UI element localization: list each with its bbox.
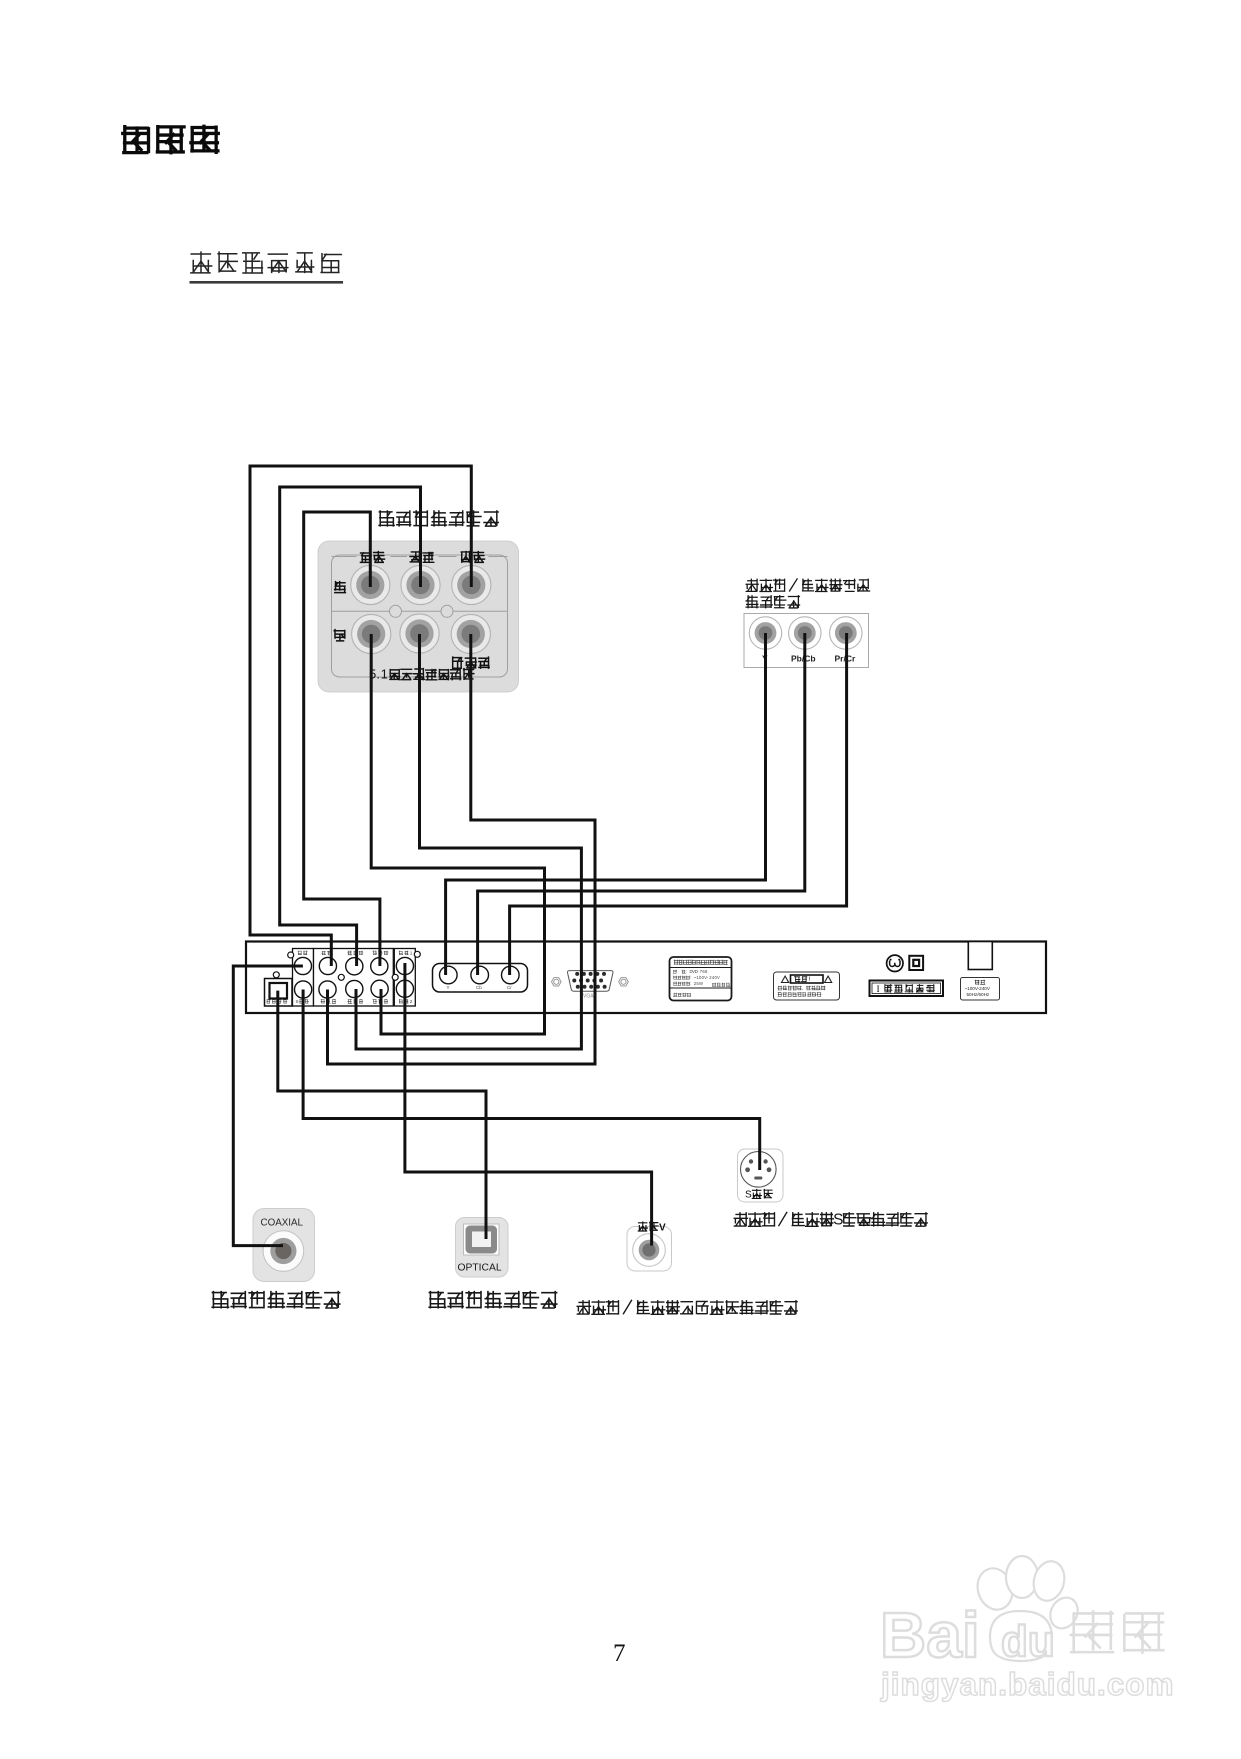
label row lines [332, 556, 508, 558]
wire subwoofer [328, 634, 596, 1064]
wire component Pr [510, 633, 847, 975]
screw holes [288, 952, 294, 958]
label 右 [334, 630, 345, 641]
wire composite video [405, 963, 652, 1246]
VGA connector [567, 971, 613, 992]
svg-text:Y: Y [447, 985, 450, 990]
wire center channel [250, 466, 471, 966]
wire surround-R [356, 634, 581, 1049]
composite video connector [627, 1227, 672, 1272]
svg-text:S: S [296, 999, 299, 1004]
spec line4 [674, 982, 677, 985]
label 電視機／監視器色差 [746, 579, 758, 591]
svg-text:~100V-240V: ~100V-240V [965, 986, 991, 991]
RCA jack component Pb/Cb [789, 617, 821, 649]
svg-text::: : [686, 969, 687, 974]
wire component Pb [478, 633, 805, 975]
rear RCA coax out [294, 957, 311, 974]
VGA screw left [552, 978, 562, 986]
spec line5 [712, 983, 716, 987]
label 同軸 [298, 951, 302, 954]
svg-text:!: ! [808, 976, 810, 983]
wire surround-L [280, 487, 421, 966]
svg-text:W: W [699, 981, 703, 986]
title 連接圖 [123, 127, 149, 153]
cert circle logo [887, 955, 903, 971]
svg-text:du: du [1001, 1617, 1055, 1666]
svg-text:V: V [659, 1223, 666, 1234]
AC inlet cutout [968, 942, 992, 970]
label 光纖端子 [267, 999, 271, 1003]
svg-text:OPTICAL: OPTICAL [458, 1263, 502, 1274]
svg-text:1: 1 [410, 950, 413, 955]
label 擴音機輸入端口 optical [429, 1292, 445, 1308]
spec line6 [673, 993, 677, 997]
label rear 中置 [322, 951, 326, 955]
svg-text:jingyan.baidu.com: jingyan.baidu.com [880, 1666, 1175, 1702]
label 擴音機輸入端口 top [379, 511, 394, 526]
rear RCA svideo out [295, 981, 312, 998]
jack group box video [394, 949, 415, 1007]
spec label [670, 957, 732, 1001]
svg-text:7: 7 [613, 1640, 626, 1667]
spec line2 [673, 970, 676, 973]
RCA jack 5.1 surround-R [400, 614, 439, 653]
label rear 視頻1 [399, 951, 403, 955]
warning line2 [778, 992, 782, 996]
warning label [774, 972, 840, 1000]
label 輸入端口 [746, 596, 758, 608]
RCA jack 5.1 front-L [351, 565, 390, 604]
watermark 经验 [1071, 1612, 1113, 1653]
TV component video input box [744, 614, 869, 668]
VGA screw right [619, 978, 629, 986]
svg-text:50Hz/60Hz: 50Hz/60Hz [967, 992, 990, 997]
RCA jack 5.1 front-R [352, 614, 391, 653]
wire s-video [303, 990, 760, 1171]
laser class label [870, 981, 944, 997]
label S視頻 [752, 1189, 761, 1198]
spec line3 [673, 976, 676, 980]
spec line1 [674, 960, 678, 965]
divider line [332, 610, 508, 612]
svg-text::: : [690, 975, 691, 980]
svg-text:I: I [877, 985, 880, 995]
power label [961, 978, 1000, 1001]
rear RCA surround-R out [346, 980, 363, 997]
label 電源 [975, 980, 979, 984]
rear RCA Cb out [471, 966, 489, 984]
wire component Y [446, 633, 766, 975]
label 前置 [360, 553, 371, 563]
RCA jack component Y [749, 617, 781, 649]
subtitle underline [190, 281, 344, 284]
svg-text:1: 1 [381, 666, 388, 681]
RCA jack 5.1 subwoofer [451, 614, 490, 653]
svg-text:S: S [745, 1190, 752, 1201]
label rear 環繞左 [348, 951, 352, 955]
svg-text:Cb: Cb [476, 985, 482, 990]
rear RCA front-R out [371, 980, 388, 997]
label rear 重低音 [321, 1000, 325, 1004]
OPTICAL connector [456, 1218, 509, 1278]
label 環繞 [410, 552, 420, 563]
RCA jack component Pr/Cr [830, 617, 862, 649]
svg-text:.: . [376, 666, 380, 681]
S-video connector [738, 1149, 784, 1202]
label 視頻V [638, 1222, 647, 1231]
wire coaxial [233, 966, 303, 1246]
label rear 視頻2 [399, 999, 403, 1003]
5.1 surround audio input panel [318, 541, 519, 692]
label rear 環繞右 [348, 999, 352, 1003]
label 左 [335, 582, 346, 593]
rear RCA video out 2 [396, 980, 413, 997]
svg-text:Pb/Cb: Pb/Cb [791, 654, 816, 664]
svg-text:2: 2 [410, 999, 413, 1004]
jack group box 6ch [314, 949, 394, 1007]
label 電視機／監視器S端子輸入端口 [734, 1213, 747, 1226]
label rear 前置右 [373, 999, 377, 1003]
RCA jack 5.1 surround-L [401, 565, 440, 604]
rear RCA video out 1 [396, 957, 413, 974]
rear RCA Cr out [502, 966, 520, 984]
wire front-R [371, 634, 544, 1034]
DVD rear panel [246, 942, 1046, 1014]
subtitle 視頻系統連接 [191, 252, 212, 273]
rear RCA Y out [440, 966, 458, 984]
rear RCA front-L out [371, 958, 388, 975]
optical out connector [265, 979, 293, 1007]
component video out group [433, 964, 528, 993]
label 重低音 [453, 657, 463, 668]
cert square logo [909, 956, 923, 970]
wire optical [278, 991, 486, 1239]
svg-text:,: , [802, 987, 803, 992]
label 中置 [461, 552, 471, 563]
svg-text::: : [690, 981, 691, 986]
rear RCA center out [319, 957, 336, 974]
rear RCA surround-L out [346, 958, 363, 975]
label 擴音機輸入端口 coax [212, 1292, 228, 1308]
label 類激光產品 [885, 985, 892, 993]
wire front-L [304, 512, 380, 966]
label rear 前置左 [373, 951, 377, 955]
svg-text:S: S [833, 1212, 843, 1229]
svg-text:Bai: Bai [880, 1599, 980, 1671]
baidu watermark [880, 1556, 1083, 1671]
rear RCA sub out [319, 981, 336, 998]
label 警告 [794, 977, 800, 982]
RCA jack 5.1 center [452, 565, 491, 604]
warning line1 [778, 986, 782, 990]
COAXIAL connector [253, 1209, 315, 1282]
svg-text:VGA: VGA [583, 994, 594, 1000]
jack group box coax/svideo [293, 949, 314, 1007]
svg-text:COAXIAL: COAXIAL [261, 1218, 304, 1229]
svg-text:Cr: Cr [507, 985, 512, 990]
label 電視機/監視器標準視頻輸入端口 [577, 1301, 590, 1314]
svg-text:V: V [717, 975, 720, 980]
